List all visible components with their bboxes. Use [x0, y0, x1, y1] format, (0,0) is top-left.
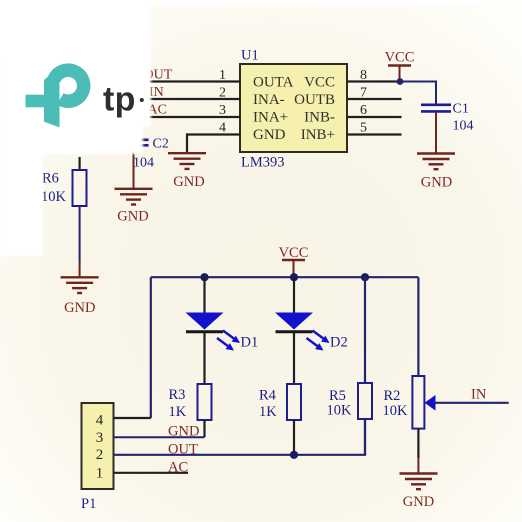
svg-text:104: 104 — [133, 156, 154, 171]
svg-text:VCC: VCC — [279, 245, 309, 261]
svg-text:7: 7 — [360, 86, 367, 101]
wire VCC to C1 — [400, 82, 436, 105]
capacitor C1 — [421, 102, 474, 134]
wire pin3 (AC net) — [140, 116, 240, 118]
resistor R3 — [169, 384, 212, 420]
svg-text:1K: 1K — [169, 404, 187, 420]
potentiometer R2 — [383, 376, 436, 429]
svg-text:P1: P1 — [81, 496, 96, 512]
svg-text:GND: GND — [403, 494, 434, 510]
svg-text:INA-: INA- — [253, 92, 285, 108]
wire rail to R5 — [364, 277, 366, 383]
wire R3 to GND net — [203, 420, 205, 437]
svg-text:INA+: INA+ — [253, 110, 288, 126]
wire C1 to ground — [435, 111, 437, 153]
svg-text:GND: GND — [421, 175, 452, 191]
power VCC bottom — [279, 245, 309, 277]
svg-text:INB-: INB- — [304, 110, 335, 126]
svg-text:8: 8 — [360, 68, 367, 83]
svg-text:1: 1 — [96, 465, 104, 481]
resistor R4 — [259, 384, 301, 420]
svg-text:D1: D1 — [241, 335, 259, 351]
wire VCC rail — [151, 276, 419, 278]
svg-text:R3: R3 — [169, 387, 186, 403]
watermark white box — [0, 0, 151, 256]
junction dot OUT/R4 — [290, 451, 298, 459]
svg-text:D2: D2 — [330, 335, 348, 351]
wire pin2 (IN net) — [140, 98, 240, 100]
wire rail down to P1 pin4 — [150, 277, 152, 418]
wire P1 pin4 — [114, 417, 151, 419]
svg-text:OUTA: OUTA — [253, 75, 294, 91]
svg-text:GND: GND — [253, 127, 286, 143]
wire pin6 stub — [347, 116, 402, 118]
svg-text:10K: 10K — [327, 403, 353, 419]
svg-text:1K: 1K — [259, 404, 277, 420]
svg-text:OUTB: OUTB — [294, 92, 335, 108]
wire D2 to R4 — [293, 332, 295, 384]
svg-text:GND: GND — [117, 209, 148, 225]
svg-text:VCC: VCC — [385, 50, 415, 66]
ground pin4 — [168, 153, 206, 190]
wire R5 to OUT net — [364, 419, 366, 455]
svg-text:VCC: VCC — [304, 75, 335, 91]
wire P1 pin3 GND net — [114, 436, 205, 438]
ground R2 — [400, 474, 438, 510]
op-amp U1 — [240, 64, 347, 152]
wire above R6 — [78, 157, 80, 170]
svg-text:10K: 10K — [41, 189, 67, 205]
wire rail to R2 — [417, 277, 419, 376]
svg-text:1: 1 — [219, 68, 226, 83]
junction dot rail/R5 — [361, 273, 369, 281]
LED D2 — [275, 313, 348, 351]
wire D1 to R3 — [203, 332, 205, 384]
svg-text:IN: IN — [471, 387, 487, 403]
svg-text:U1: U1 — [241, 48, 259, 64]
wire R4 to OUT net — [293, 420, 295, 455]
wire R2 to ground — [417, 429, 419, 458]
svg-text:tp: tp — [103, 81, 136, 119]
logo text tp — [103, 81, 144, 119]
logo mark — [26, 70, 84, 127]
ground C1 — [417, 154, 455, 191]
wire pin1 (OUT net) — [140, 80, 240, 82]
svg-text:2: 2 — [96, 447, 104, 463]
power VCC top — [385, 50, 415, 82]
ground R6 — [61, 277, 99, 316]
junction dot rail/VCC-D2 — [290, 273, 298, 281]
wire rail to D2 — [293, 277, 295, 313]
svg-text:OUT: OUT — [168, 442, 198, 458]
connector P1 — [82, 403, 114, 489]
capacitor C2 — [119, 137, 169, 171]
junction dot pin8/VCC — [397, 78, 404, 85]
svg-text:3: 3 — [219, 103, 226, 118]
svg-text:IN: IN — [149, 85, 164, 100]
wire rail to D1 — [203, 277, 205, 313]
resistor R6 — [41, 170, 87, 206]
svg-text:GND: GND — [173, 174, 204, 190]
wire P1 pin2 OUT net — [114, 419, 366, 455]
resistor R5 — [327, 383, 373, 419]
junction dot rail/D1 — [200, 273, 208, 281]
wire C2 to ground — [133, 145, 135, 189]
svg-text:4: 4 — [219, 121, 226, 136]
svg-text:GND: GND — [64, 300, 95, 316]
svg-text:6: 6 — [360, 103, 367, 118]
svg-text:10K: 10K — [383, 403, 409, 419]
wire R6 to ground — [79, 206, 81, 262]
wire pin7 stub — [347, 98, 402, 100]
wire IN — [435, 402, 509, 404]
svg-text:R4: R4 — [259, 388, 277, 404]
svg-text:GND: GND — [168, 424, 199, 440]
svg-text:INB+: INB+ — [301, 127, 335, 143]
svg-text:R2: R2 — [384, 388, 401, 404]
LED D1 — [186, 313, 259, 351]
wire pin8 — [347, 80, 400, 82]
svg-text:AC: AC — [168, 460, 188, 476]
svg-text:C2: C2 — [153, 137, 169, 152]
svg-text:104: 104 — [453, 119, 474, 134]
wire pin4 to ground — [187, 135, 240, 153]
svg-text:C1: C1 — [453, 102, 469, 117]
svg-text:R6: R6 — [42, 171, 59, 187]
ground C2 — [115, 189, 153, 225]
svg-text:3: 3 — [96, 430, 104, 446]
wire pin5 stub — [347, 133, 402, 135]
svg-text:2: 2 — [219, 86, 226, 101]
svg-text:LM393: LM393 — [241, 155, 285, 171]
wire P1 pin1 AC — [114, 472, 189, 474]
svg-text:5: 5 — [360, 121, 367, 136]
svg-text:4: 4 — [96, 413, 104, 429]
